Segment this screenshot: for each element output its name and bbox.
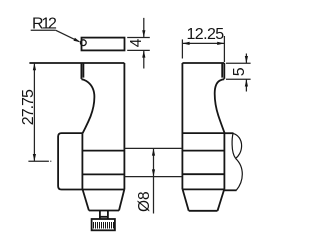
dim 4 line — [143, 18, 145, 69]
right view bottom line — [182, 188, 224, 190]
left view interior line lower — [82, 173, 124, 175]
dia8 ext bottom between views — [124, 176, 182, 178]
svg-text:4: 4 — [128, 38, 145, 47]
dim 5 ext top — [226, 62, 251, 64]
arrow 12.25 right — [217, 42, 224, 45]
right view top edge — [182, 62, 224, 64]
dim 4 ext top — [127, 37, 150, 39]
dim 4 ext bottom — [127, 49, 150, 51]
left view right edge — [123, 63, 125, 190]
arrow dia8 bottom — [152, 169, 155, 176]
left S-curve profile — [81, 79, 94, 133]
dim 12.25 line — [182, 42, 224, 44]
arrow 12.25 left — [182, 42, 189, 45]
left view interior line upper — [82, 150, 124, 152]
dim 12.25 ext left — [181, 39, 183, 58]
arrow 5 top — [245, 56, 248, 63]
right notch inner vertical — [221, 63, 223, 78]
left view top edge with 27.75 extension — [29, 62, 124, 64]
centerline dash-dot — [28, 160, 51, 162]
dim 5 line — [245, 54, 247, 92]
svg-text:Ø8: Ø8 — [136, 191, 153, 212]
screw shaft step line — [100, 216, 108, 218]
svg-text:12.25: 12.25 — [187, 26, 225, 43]
dia8 ext top between views — [124, 147, 182, 149]
screw shaft left — [99, 211, 101, 220]
cylinder S-break lower curve — [236, 158, 243, 190]
notch outer vertical — [80, 63, 82, 79]
arrow 4 top — [142, 30, 145, 37]
right taper left side — [183, 189, 189, 210]
arrow dia8 top — [152, 148, 155, 155]
svg-text:27.75: 27.75 — [20, 89, 37, 125]
arrowheads — [33, 30, 248, 176]
arrow R12 leader — [74, 38, 81, 43]
R12 radius circle — [80, 40, 86, 46]
right notch outer vertical — [223, 63, 225, 79]
right taper bottom — [189, 210, 218, 212]
dim diameter8 line — [153, 148, 155, 213]
right view interior line upper — [182, 150, 224, 152]
knurl bars — [94, 222, 114, 228]
dim 5 ext bottom — [226, 78, 251, 80]
svg-text:5: 5 — [231, 67, 248, 76]
arrow 4 bottom — [142, 50, 145, 57]
right taper right side — [218, 189, 225, 210]
left taper right side — [119, 190, 124, 211]
svg-text:R12: R12 — [32, 16, 57, 33]
cylinder S-break lens left arc — [232, 133, 236, 158]
arrow 27.75 bottom — [33, 154, 36, 161]
left taper bottom — [89, 210, 119, 212]
left taper left side — [83, 190, 89, 211]
dim 27.75 line — [33, 63, 35, 161]
screw shaft right — [107, 211, 109, 220]
cylinder bottom edge — [224, 189, 236, 191]
right view block top line — [182, 132, 224, 134]
tab rectangle (left view, top pad) — [82, 38, 125, 51]
R12 leader diagonal — [56, 30, 79, 41]
right S-curve profile — [215, 79, 225, 133]
right view left edge — [181, 63, 183, 189]
right view interior line lower — [182, 173, 224, 175]
cylinder top edge — [224, 132, 233, 134]
R12 leader underline — [31, 29, 56, 31]
knurled knob outline — [92, 219, 115, 230]
cylinder S-break lens right arc — [233, 133, 242, 158]
arrow 5 bottom — [245, 79, 248, 86]
dim 12.25 ext right — [223, 36, 225, 62]
left view lower-left vertical — [81, 133, 83, 189]
right view lower right edge — [223, 133, 225, 189]
arrow 27.75 top — [33, 63, 36, 70]
clamp block outline — [58, 133, 124, 189]
notch inner vertical — [82, 63, 84, 78]
